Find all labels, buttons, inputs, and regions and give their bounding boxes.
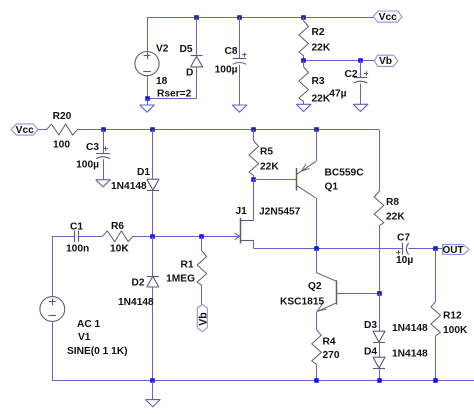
- svg-text:Q2: Q2: [308, 281, 322, 292]
- svg-text:22K: 22K: [260, 162, 279, 173]
- svg-text:Vcc: Vcc: [16, 125, 34, 136]
- svg-text:R4: R4: [323, 337, 336, 348]
- svg-text:270: 270: [323, 350, 340, 361]
- svg-text:Vb: Vb: [379, 56, 392, 67]
- svg-text:100n: 100n: [66, 244, 89, 255]
- svg-text:R20: R20: [53, 111, 72, 122]
- svg-text:C7: C7: [397, 233, 410, 244]
- svg-text:BC559C: BC559C: [325, 168, 365, 179]
- svg-text:100µ: 100µ: [76, 160, 99, 171]
- svg-text:R1: R1: [180, 260, 193, 271]
- svg-text:C2: C2: [344, 69, 357, 80]
- svg-text:D1: D1: [137, 167, 150, 178]
- svg-text:22K: 22K: [312, 43, 331, 54]
- svg-text:D4: D4: [364, 347, 377, 358]
- svg-text:10K: 10K: [110, 244, 129, 255]
- svg-text:R3: R3: [312, 76, 325, 87]
- svg-text:D: D: [186, 68, 193, 79]
- svg-text:100: 100: [53, 140, 70, 151]
- svg-text:1MEG: 1MEG: [166, 274, 195, 285]
- svg-text:D2: D2: [132, 278, 145, 289]
- svg-text:V1: V1: [78, 332, 91, 343]
- svg-text:SINE(0 1 1K): SINE(0 1 1K): [67, 346, 128, 357]
- svg-text:R2: R2: [312, 27, 325, 38]
- svg-text:D3: D3: [364, 320, 377, 331]
- svg-text:D5: D5: [180, 44, 193, 55]
- svg-text:C1: C1: [70, 222, 83, 233]
- svg-text:OUT: OUT: [442, 245, 463, 256]
- svg-text:47µ: 47µ: [329, 89, 346, 100]
- svg-text:Q1: Q1: [325, 182, 339, 193]
- svg-text:R6: R6: [111, 221, 124, 232]
- svg-text:18: 18: [156, 76, 168, 87]
- svg-text:J1: J1: [236, 206, 248, 217]
- svg-text:Vcc: Vcc: [379, 12, 397, 23]
- svg-text:1N4148: 1N4148: [392, 323, 428, 334]
- svg-text:V2: V2: [156, 44, 169, 55]
- svg-text:100µ: 100µ: [215, 65, 238, 76]
- svg-text:1N4148: 1N4148: [118, 297, 154, 308]
- svg-text:J2N5457: J2N5457: [259, 207, 301, 218]
- svg-text:Rser=2: Rser=2: [157, 89, 192, 100]
- svg-text:1N4148: 1N4148: [392, 349, 428, 360]
- svg-text:22K: 22K: [386, 212, 405, 223]
- svg-text:10µ: 10µ: [396, 255, 413, 266]
- svg-text:R8: R8: [386, 197, 399, 208]
- svg-text:22K: 22K: [312, 94, 331, 105]
- svg-text:R12: R12: [443, 311, 462, 322]
- svg-text:KSC1815: KSC1815: [280, 297, 325, 308]
- svg-text:Vb: Vb: [197, 312, 209, 326]
- svg-text:100K: 100K: [443, 325, 468, 336]
- svg-text:R5: R5: [260, 147, 273, 158]
- svg-text:AC 1: AC 1: [77, 319, 101, 330]
- svg-text:C3: C3: [86, 142, 99, 153]
- svg-text:1N4148: 1N4148: [111, 181, 147, 192]
- svg-text:C8: C8: [224, 46, 237, 57]
